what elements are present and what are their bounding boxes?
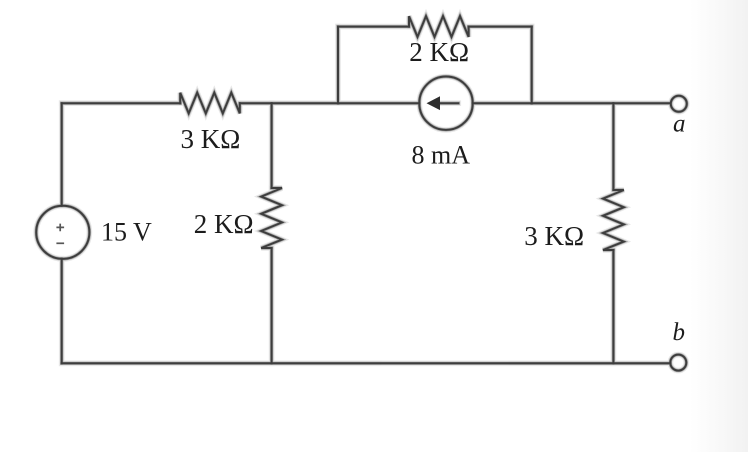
svg-text:2 KΩ: 2 KΩ bbox=[194, 209, 254, 239]
right edge gradient band bbox=[690, 0, 748, 452]
svg-text:3 KΩ: 3 KΩ bbox=[181, 124, 241, 154]
svg-text:15 V: 15 V bbox=[101, 218, 152, 247]
schematic stroke art: halo pass 2 bbox=[36, 16, 687, 371]
voltage source plus sign bbox=[56, 224, 64, 232]
svg-text:b: b bbox=[673, 319, 686, 346]
current source arrowhead bbox=[427, 96, 441, 110]
schematic stroke art: halo pass 1 bbox=[36, 16, 687, 371]
voltage source minus sign bbox=[56, 242, 64, 244]
schematic stroke art: core lines bbox=[36, 16, 687, 371]
svg-text:3 KΩ: 3 KΩ bbox=[524, 221, 584, 251]
svg-text:a: a bbox=[673, 111, 686, 138]
svg-text:8 mA: 8 mA bbox=[412, 141, 471, 170]
svg-text:2 KΩ: 2 KΩ bbox=[409, 37, 469, 67]
